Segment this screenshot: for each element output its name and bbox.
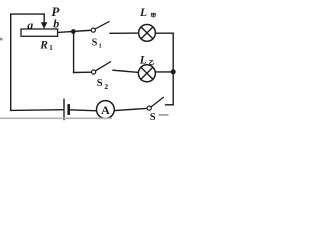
- wire node to S1: [76, 29, 92, 32]
- node junction left: [71, 29, 76, 34]
- wire S to right rail: [166, 104, 174, 106]
- wire node down to S2 branch: [73, 32, 75, 73]
- switch S2 lever: [96, 62, 111, 71]
- svg-text:2: 2: [104, 82, 108, 91]
- svg-text:A: A: [101, 103, 110, 117]
- wire top horizontal to slider: [11, 13, 45, 15]
- wire lamp L乙 to right node: [155, 71, 170, 73]
- artifact grey dash bottom right: [159, 114, 169, 116]
- switch S1 lever: [95, 22, 109, 29]
- wire slider stem: [43, 14, 45, 23]
- wire bottom left to battery: [11, 109, 64, 112]
- svg-text:S: S: [92, 38, 98, 49]
- lamp L乙: [138, 65, 155, 82]
- svg-text:L: L: [139, 7, 147, 19]
- switch S pivot: [147, 106, 151, 110]
- svg-text:S: S: [97, 78, 103, 89]
- switch S1 pivot: [91, 28, 95, 32]
- svg-text:R: R: [39, 40, 48, 52]
- lamp L甲: [139, 25, 156, 42]
- resistor R1 body: [21, 29, 58, 36]
- wire battery to ammeter: [70, 110, 97, 111]
- wire corner to S2: [74, 71, 92, 73]
- svg-text:1: 1: [49, 44, 53, 52]
- wire left vertical: [10, 14, 12, 110]
- wire S2 to lamp L乙: [113, 70, 138, 72]
- artifact speck left edge: [0, 38, 2, 41]
- wire right vertical rail: [172, 33, 174, 105]
- svg-text:b: b: [53, 17, 59, 31]
- svg-text:L: L: [139, 55, 147, 67]
- artifact grey rule bottom: [0, 117, 112, 119]
- switch S2 pivot: [92, 70, 96, 74]
- slider arrow P head: [41, 22, 48, 28]
- node junction right: [171, 69, 176, 74]
- switch S lever: [151, 97, 163, 107]
- svg-text:1: 1: [99, 42, 102, 49]
- battery long plate: [63, 99, 65, 119]
- wire lamp L甲 to right rail: [155, 32, 173, 34]
- svg-text:a: a: [27, 18, 33, 32]
- wire ammeter to switch S: [114, 108, 147, 110]
- wire resistor to node: [58, 31, 71, 34]
- ammeter A1 body: [97, 101, 115, 119]
- battery short plate: [67, 105, 70, 113]
- wire S1 to lamp L甲: [110, 32, 139, 34]
- svg-text:S: S: [150, 112, 156, 123]
